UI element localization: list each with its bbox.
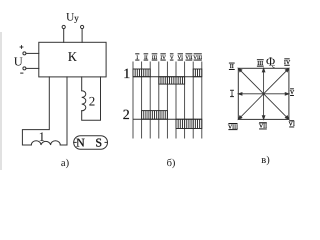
tact V <box>170 52 174 55</box>
tact numerals row <box>135 53 202 60</box>
rotor shaft tick right <box>105 141 108 143</box>
node label III (top-middle) <box>257 58 264 61</box>
svg-text:а): а) <box>61 158 70 169</box>
wire: winding 1 right end up to box <box>60 77 67 145</box>
flux arrow left (I) <box>241 93 263 95</box>
node label II (top-left) <box>229 62 235 65</box>
node label VIII (bottom-left) <box>228 122 237 125</box>
waveform 1 positive block tact VIII <box>193 69 202 77</box>
rotor magnet oval <box>74 136 108 150</box>
waveform 2 axis <box>133 118 202 120</box>
grid line t6 <box>184 62 186 139</box>
terminal circle top-left <box>62 25 65 28</box>
tact I <box>135 52 139 55</box>
svg-text:N: N <box>76 135 85 149</box>
waveform 1 axis <box>133 76 202 78</box>
terminal circle left-lower <box>23 67 26 70</box>
tact VIII <box>194 52 202 55</box>
flux arrow down-left (VIII) <box>240 94 263 117</box>
grid line t3 <box>158 62 160 139</box>
terminal circle top-right <box>81 25 84 28</box>
svg-text:1: 1 <box>123 67 130 82</box>
svg-text:в): в) <box>261 155 270 166</box>
svg-text:1: 1 <box>39 129 46 144</box>
winding L2 (coil, 3 humps) <box>82 91 86 111</box>
waveform 2 negative block tacts VI-VIII <box>176 119 202 128</box>
winding L1 (coil, 3 humps) <box>31 141 60 145</box>
wire: box to winding 1 (left path) <box>22 77 49 145</box>
wire: top terminal 1 to box <box>63 29 65 43</box>
svg-text:U: U <box>14 55 23 69</box>
plus sign <box>20 45 24 49</box>
flux arrow down (VII) <box>263 94 265 117</box>
waveform 2 positive block tacts II-IV <box>142 111 168 120</box>
tact II <box>144 52 149 55</box>
scan edge artifact <box>0 32 2 170</box>
tact VI <box>178 52 183 55</box>
wire: top terminal 2 to box <box>81 29 83 43</box>
wire: box down to winding 2 <box>81 77 83 91</box>
waveform 1 negative block tacts IV-VI <box>159 77 185 84</box>
svg-text:2: 2 <box>89 94 96 109</box>
flux arrow up-right (IV) <box>264 70 287 93</box>
grid line t7 <box>192 62 194 139</box>
rotor shaft tick left <box>74 141 77 143</box>
minus sign <box>20 72 23 74</box>
flux arrow down-right (VI) <box>264 94 287 117</box>
node label I (left) <box>230 89 234 92</box>
node label IV (top-right) <box>284 57 289 60</box>
wire: left lower terminal to box <box>26 67 39 69</box>
svg-text:2: 2 <box>123 108 130 123</box>
tact III <box>152 52 158 55</box>
svg-text:б): б) <box>167 158 176 169</box>
tact IV <box>160 52 165 55</box>
grid line t1 <box>141 62 143 139</box>
grid line t4 <box>166 62 168 139</box>
svg-text:К: К <box>68 49 78 64</box>
node label VII (bottom-middle) <box>259 121 267 124</box>
svg-text:S: S <box>95 135 102 149</box>
stator square <box>238 68 289 119</box>
node label V (right) <box>290 87 294 90</box>
grid line t8 <box>201 62 203 139</box>
wire: winding 2 bottom loop back to box <box>82 77 101 120</box>
flux arrow up (III) <box>263 71 265 94</box>
tact VII <box>186 52 193 55</box>
svg-text:у: у <box>74 13 79 23</box>
node label VI (bottom-right) <box>289 119 294 122</box>
wire: left upper terminal to box <box>26 52 39 54</box>
waveform 1 positive block tacts I-II <box>133 69 150 77</box>
commutator box K <box>39 42 106 77</box>
grid line t0 <box>132 62 134 139</box>
flux arrow right (V) <box>264 93 286 95</box>
grid line t2 <box>149 62 151 139</box>
grid line t5 <box>175 62 177 139</box>
terminal circle left-upper <box>23 52 26 55</box>
flux arrow up-left (II) <box>240 70 263 93</box>
